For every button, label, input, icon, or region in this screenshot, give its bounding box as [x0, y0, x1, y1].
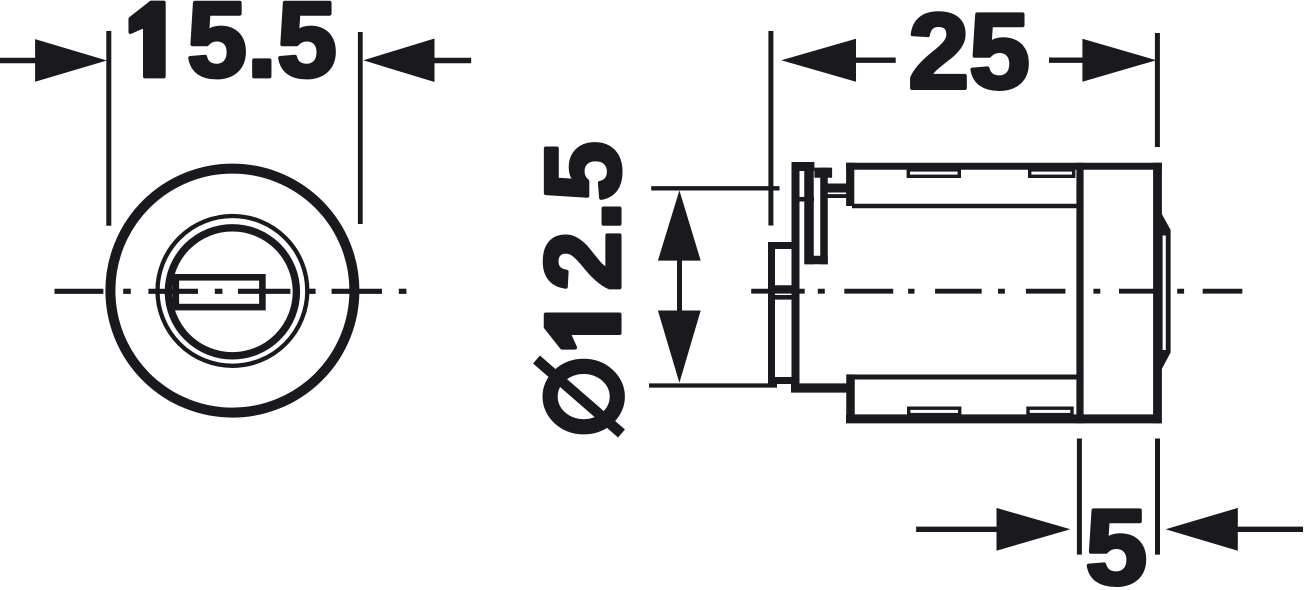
dia 12.5 bottom extension line [649, 383, 777, 387]
dia symbol ring [550, 366, 617, 426]
dia 12.5 up arrow [658, 190, 701, 260]
bottom notch 1 [909, 408, 960, 414]
dim 5 left arrow [997, 508, 1071, 551]
dim text 15.5 [131, 3, 334, 78]
dia 12.5 dimension shaft [677, 256, 682, 318]
dim 15.5 right extension line [358, 32, 363, 224]
dim text 25 [912, 13, 1027, 89]
lower connector bar [791, 383, 851, 392]
upper connector thin bar [827, 194, 852, 198]
keyway slot rectangle [176, 277, 263, 307]
flange plate P2 right edge [820, 168, 828, 265]
side view upper chamber floor line [852, 204, 1080, 209]
dim 25 right extension line [1155, 33, 1160, 147]
flange plate P2 top edge [814, 168, 832, 178]
front view centerline [55, 289, 407, 294]
bottom notch 2 [1028, 408, 1072, 414]
side view body left edge upper [846, 163, 854, 206]
dia 12.5 top extension line [651, 186, 779, 190]
dim 5 left tail line [916, 527, 997, 532]
dim 15.5 left extension line [106, 31, 111, 226]
front collar inner line lower [768, 295, 799, 300]
dim text 5 [1089, 510, 1144, 585]
dim 25 left arrow [781, 39, 856, 82]
front collar inner line upper [768, 285, 799, 290]
upper connector thick bar [827, 184, 852, 193]
dim 15.5 right tail line [434, 58, 471, 63]
front view outer circle [110, 169, 354, 413]
dim 25 left tail line [855, 58, 896, 63]
side view body top edge [846, 163, 1162, 170]
top notch 2 [1030, 170, 1074, 176]
dim 5 right arrow [1166, 508, 1238, 551]
front view core circle [168, 228, 296, 356]
side view body bottom edge [846, 414, 1161, 423]
dim 5 right tail line [1237, 527, 1303, 532]
dia symbol slash [537, 360, 622, 434]
side view divider between housing and rear cap [1076, 163, 1083, 424]
side view lower chamber ceiling line [848, 375, 1079, 380]
side view centerline [751, 289, 1242, 294]
dim 5 right extension line [1155, 439, 1160, 555]
flange plate P2 bottom edge [805, 256, 828, 265]
flange plate P1 left edge [792, 162, 800, 392]
dim 25 left extension line [768, 31, 773, 226]
front collar R0 rectangle [772, 246, 796, 381]
dim 5 left extension line [1077, 439, 1082, 555]
flange plate P1 cross line [792, 197, 815, 202]
dim 15.5 left tail line [0, 58, 36, 63]
top notch 1 [908, 170, 959, 176]
rear cam bump outline [1161, 213, 1171, 371]
dim 25 right tail line [1049, 58, 1083, 63]
dim 15.5 left arrow [35, 39, 107, 82]
flange plate P1 right edge [804, 162, 814, 264]
side view body right edge [1153, 163, 1162, 424]
front view middle ring circle [158, 216, 308, 366]
dim 15.5 right arrow [363, 39, 434, 83]
side view body left edge lower [846, 374, 855, 421]
flange plate P1 top edge [792, 162, 815, 171]
rear cam bump inner slit [1163, 236, 1166, 351]
dim text dia 12.5 digits [545, 144, 621, 347]
dim 25 right arrow [1082, 39, 1156, 82]
dia 12.5 down arrow [658, 311, 701, 383]
